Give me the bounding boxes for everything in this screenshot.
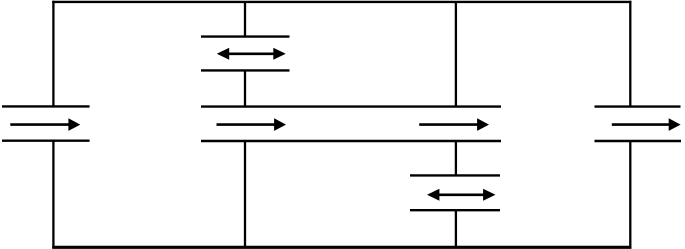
wire node B1 vertical middle segment	[244, 70, 246, 106]
junction capacitor C4 (bottom, on node B2) plates	[410, 175, 500, 210]
current arrow through C5	[612, 118, 681, 131]
wire left edge upper segment	[52, 1, 54, 107]
current arrow 2 inside C3	[419, 118, 489, 131]
junction capacitor C2 (top, on node B1) plates	[201, 37, 290, 71]
wire left edge lower segment	[52, 141, 54, 248]
wire top edge	[52, 1, 631, 3]
wire node B1 vertical bottom segment	[244, 141, 246, 248]
wire right edge upper segment	[629, 1, 631, 107]
junction capacitor C5 (right edge) plates	[595, 107, 682, 141]
double-headed arrow inside C4	[427, 189, 496, 201]
double-headed arrow inside C2	[217, 48, 286, 60]
junction capacitor C3 (long middle) plates	[201, 107, 501, 141]
wire node B2 vertical middle segment	[455, 141, 457, 175]
wire bottom edge	[52, 246, 631, 249]
wire node B1 vertical top segment	[244, 2, 246, 37]
wire right edge lower segment	[629, 141, 631, 248]
current arrow through C1	[10, 118, 80, 131]
wire node B2 vertical bottom segment	[455, 210, 457, 248]
junction capacitor C1 (left edge) plates	[2, 106, 90, 140]
wire node B2 vertical top segment	[455, 2, 457, 107]
current arrow 1 inside C3	[217, 118, 287, 131]
